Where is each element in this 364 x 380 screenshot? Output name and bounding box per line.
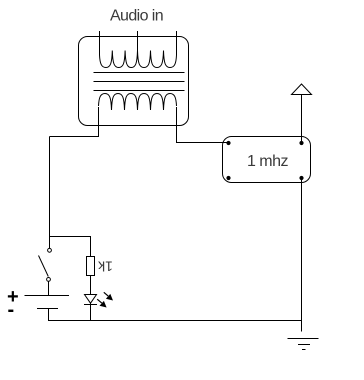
svg-text:Audio in: Audio in (110, 8, 163, 25)
wire: branch to resistor (50, 237, 91, 257)
transformer T1 secondary winding (99, 94, 177, 111)
oscillator U1 pin dot top-right (299, 141, 303, 145)
ground GND bar 1 (288, 338, 319, 340)
LED D1 triangle (85, 295, 97, 304)
oscillator U1 pin dot bottom-right (299, 176, 303, 180)
wire: resistor to LED (90, 276, 92, 295)
svg-text:-: - (8, 299, 15, 321)
oscillator U1 pin dot top-left (226, 141, 230, 145)
switch S1 top terminal (48, 248, 52, 252)
resistor R1 body (87, 257, 95, 276)
transformer T1 primary top lead right (176, 31, 178, 55)
LED D1 emission arrow 1 (104, 292, 113, 300)
wire: antenna mast (301, 95, 303, 142)
transformer T1 core line 1 (94, 72, 185, 74)
wire: left vertical rail down to switch (49, 137, 51, 249)
ground GND bar 2 (298, 344, 310, 346)
battery BT1 positive plate (25, 295, 70, 297)
svg-text:1k: 1k (97, 259, 113, 275)
oscillator U1 body (1 mhz) (223, 137, 311, 183)
transformer T1 core line 3 (94, 90, 185, 92)
transformer T1 primary top lead left (99, 31, 101, 55)
LED D1 emission arrow 2 (97, 299, 106, 307)
transformer T1 primary top lead center tap (137, 31, 139, 52)
wire: secondary left lead down and left (50, 107, 99, 137)
transformer T1 primary winding (100, 51, 177, 68)
svg-text:1 mhz: 1 mhz (247, 153, 289, 170)
wire: battery negative down to bottom rail (49, 309, 302, 321)
oscillator U1 pin dot bottom-left (226, 176, 230, 180)
LED D1 cathode bar (84, 304, 97, 306)
wire: oscillator output down to ground rail (301, 180, 303, 332)
wire: LED to bottom rail (90, 303, 92, 320)
antenna ANT1 triangle (292, 84, 312, 95)
ground GND bar 3 (302, 349, 306, 351)
wire: secondary right lead to oscillator (177, 107, 229, 143)
switch S1 bottom terminal (47, 278, 51, 282)
switch S1 blade (open) (39, 256, 49, 277)
transformer T1 body (79, 37, 189, 126)
transformer T1 core line 2 (94, 81, 185, 83)
wire: switch to battery (48, 281, 50, 295)
battery BT1 negative plate (37, 308, 58, 310)
